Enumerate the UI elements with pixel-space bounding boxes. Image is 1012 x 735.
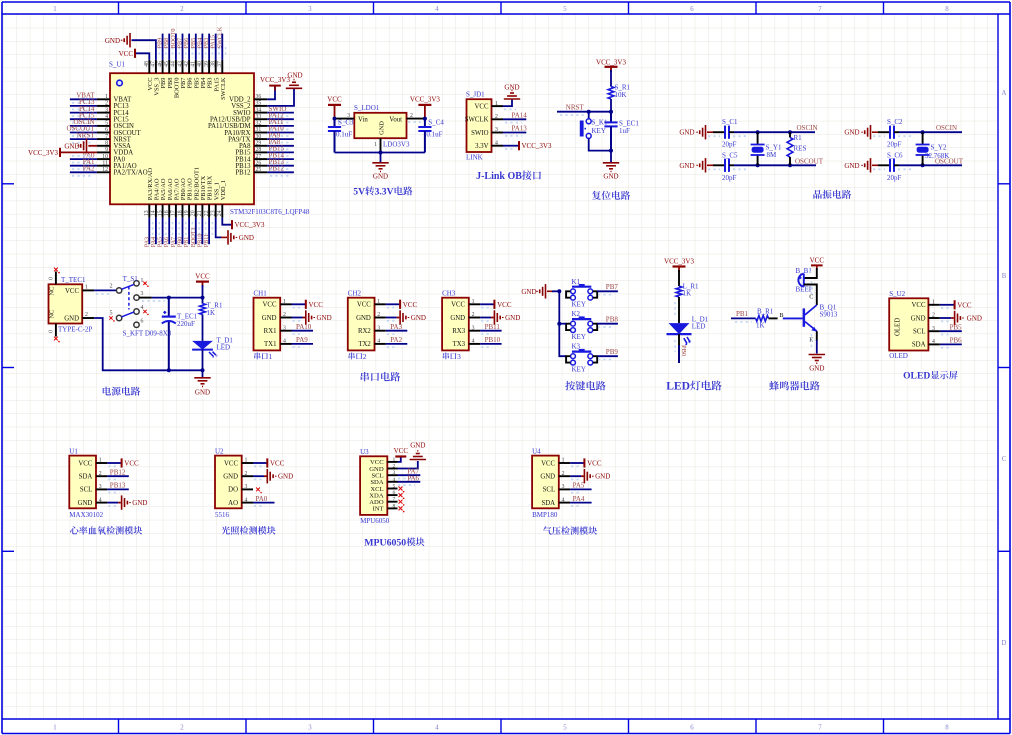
svg-text:PA0: PA0 — [256, 495, 268, 503]
junction — [167, 368, 171, 372]
crystal S_Y2 32.768K — [916, 132, 950, 165]
svg-text:3: 3 — [141, 291, 144, 297]
svg-text:TYPE-C-2P: TYPE-C-2P — [58, 326, 92, 334]
svg-text:VCC_3V3: VCC_3V3 — [410, 96, 440, 104]
svg-text:SDA: SDA — [541, 500, 555, 507]
svg-text:LED: LED — [692, 323, 706, 331]
wire net PB1 to base resistor — [731, 318, 756, 322]
wire OSCIN (crystal 2 top) — [899, 131, 962, 133]
LDO pin names — [358, 117, 402, 135]
svg-text:1: 1 — [85, 285, 88, 291]
svg-text:2: 2 — [363, 352, 367, 361]
svg-text:28: 28 — [256, 147, 262, 153]
svg-text:VCC: VCC — [912, 302, 926, 309]
wire K2 branch — [559, 323, 566, 325]
junction — [557, 289, 561, 293]
svg-text:5: 5 — [563, 724, 567, 731]
svg-text:1: 1 — [269, 352, 273, 361]
push button S_K1 KEY — [580, 112, 608, 139]
svg-text:NRST: NRST — [77, 131, 96, 139]
svg-text:PA14: PA14 — [512, 112, 528, 120]
svg-text:VCC: VCC — [810, 256, 825, 264]
svg-text:PA13: PA13 — [512, 125, 528, 133]
svg-text:GND: GND — [809, 365, 824, 373]
ground (U1) — [122, 495, 148, 509]
svg-text:46: 46 — [157, 61, 163, 67]
ground (reset) — [603, 163, 619, 181]
serial connector CH1 body — [254, 298, 281, 351]
U3 pin names and numbers — [369, 457, 395, 513]
wire net PB0 (U1 bottom) — [183, 218, 186, 245]
J-Link connector S_JD1 body — [467, 99, 492, 152]
wire net SWIO (U1) — [267, 113, 294, 117]
svg-text:S_U2: S_U2 — [889, 290, 905, 298]
svg-text:32.768K: 32.768K — [925, 152, 949, 160]
svg-text:13: 13 — [144, 210, 150, 216]
U3 pin stubs — [387, 462, 397, 509]
svg-text:15: 15 — [157, 210, 163, 216]
power VCC_3V3 (LED) — [664, 258, 694, 273]
svg-text:S_C4: S_C4 — [428, 119, 444, 127]
wire TEC1 VCC to switch — [94, 290, 116, 294]
serial connector CH3 body — [442, 298, 469, 351]
wire net OSCOUT (U1 pin 6) — [70, 133, 97, 137]
svg-text:GND: GND — [132, 499, 147, 507]
wire TEC1 GND down and along bottom — [94, 318, 202, 370]
svg-text:12: 12 — [102, 167, 108, 173]
svg-text:PA6: PA6 — [407, 474, 419, 482]
CH1 value — [254, 352, 260, 359]
wire U1 VSS_3 to GND — [132, 40, 156, 60]
svg-text:RX3: RX3 — [452, 328, 465, 335]
svg-text:NC: NC — [49, 287, 56, 296]
svg-text:20pF: 20pF — [722, 141, 737, 149]
wire net VBAT (U1 pin 1) — [70, 99, 97, 103]
svg-text:PB0: PB0 — [680, 345, 687, 356]
wire VCC to R1 — [202, 285, 204, 304]
svg-text:GND: GND — [64, 315, 79, 322]
svg-text:29: 29 — [256, 141, 262, 147]
J-Link pin names and numbers — [465, 101, 498, 150]
T_TEC1 pin names — [49, 287, 80, 323]
wire net PA13 — [503, 133, 526, 136]
svg-text:5516: 5516 — [215, 511, 230, 519]
T_TEC1 pin 2 GND stub — [82, 312, 94, 318]
svg-text:GND: GND — [411, 314, 426, 322]
svg-text:1: 1 — [53, 724, 56, 731]
wire U1 VDD_2 to VCC_3V3 — [267, 86, 275, 100]
wire net NRST — [557, 112, 611, 115]
svg-text:GND: GND — [679, 129, 694, 137]
svg-text:GND: GND — [505, 314, 520, 322]
svg-text:GND: GND — [679, 162, 694, 170]
capacitor S_C3 0.1uF — [328, 119, 354, 153]
wire net PA11 (U1) — [267, 126, 294, 129]
CH2 value — [349, 352, 355, 359]
wire net BOOT0 (U1 top) — [173, 34, 180, 60]
wire U1 VSS_1 to GND — [216, 218, 221, 238]
wire net PC13 (U1 pin 2) — [70, 106, 97, 110]
wire switch pin3 to VCC node — [139, 298, 202, 301]
power VCC (U3) — [394, 447, 409, 457]
capacitor S_C6 20pF — [873, 151, 913, 182]
svg-text:44: 44 — [171, 61, 177, 67]
wire LED to ground rail — [202, 350, 204, 371]
U3 no-connect pin 5 — [399, 487, 403, 491]
svg-text:VCC: VCC — [587, 460, 602, 468]
svg-text:5: 5 — [105, 121, 108, 127]
svg-text:T_TEC1: T_TEC1 — [61, 276, 86, 284]
svg-text:3: 3 — [308, 724, 312, 731]
wire net PB6 (U1 top) — [186, 34, 193, 60]
wire net PA4 (U1 bottom) — [156, 218, 159, 245]
power VCC_3V3 (LDO output) — [410, 96, 440, 119]
power VCC (power circuit) — [195, 272, 210, 287]
power VCC (LDO input) — [327, 96, 342, 119]
U1 pin names and numbers — [78, 458, 102, 507]
caption 5516 module — [221, 526, 230, 534]
ground (power circuit) — [194, 378, 210, 397]
wire to GND symbol — [380, 153, 382, 163]
wire net PA15 (U1 top) — [212, 34, 219, 60]
power VCC_3V3 (reset) — [596, 59, 626, 73]
svg-text:19: 19 — [184, 210, 190, 216]
svg-text:OLED: OLED — [889, 352, 908, 360]
junction — [201, 368, 205, 372]
svg-text:6: 6 — [141, 318, 144, 324]
ground (U3) — [410, 441, 426, 459]
svg-text:PB12: PB12 — [235, 170, 251, 177]
U2 pin stubs — [242, 463, 253, 503]
wire net PB7 (U1 top) — [179, 34, 186, 60]
ground (U4) — [584, 469, 610, 483]
svg-text:PB13: PB13 — [110, 482, 126, 490]
svg-text:PA9: PA9 — [296, 336, 308, 344]
wire CH3 VCC — [480, 304, 494, 307]
svg-text:42: 42 — [184, 61, 190, 67]
wire LDO GND pin 1 — [380, 138, 382, 152]
svg-text:S_C6: S_C6 — [887, 151, 903, 159]
svg-text:20pF: 20pF — [887, 141, 902, 149]
module U2 body — [215, 456, 242, 509]
svg-text:25: 25 — [256, 167, 262, 173]
wire net PB13 (U1) — [107, 489, 129, 492]
svg-text:CH1: CH1 — [254, 289, 268, 297]
svg-text:Vin: Vin — [358, 117, 368, 124]
svg-text:8: 8 — [105, 141, 108, 147]
svg-text:VCC: VCC — [78, 460, 92, 467]
wire net OSCIN (U1 pin 5) — [70, 126, 97, 129]
U1 pin stubs — [96, 463, 107, 503]
svg-text:S_C3: S_C3 — [338, 119, 354, 127]
wire VCC to buzzer pin 1 — [804, 268, 817, 278]
wire net PB9 (U1 top) — [159, 34, 166, 60]
svg-text:7: 7 — [818, 724, 822, 731]
svg-text:47: 47 — [151, 61, 157, 67]
svg-text:GND: GND — [504, 84, 519, 92]
svg-text:5V: 5V — [353, 187, 365, 198]
wire net PB11 (CH3) — [480, 331, 502, 334]
svg-text:38: 38 — [211, 61, 217, 67]
svg-text:17: 17 — [171, 210, 177, 216]
svg-text:PB12: PB12 — [110, 468, 126, 476]
wire net BOOT1 (U1 bottom) — [196, 218, 199, 245]
svg-text:OLED: OLED — [903, 371, 930, 382]
svg-text:40: 40 — [197, 61, 203, 67]
svg-text:T_S1: T_S1 — [123, 275, 139, 283]
module U4 body — [532, 456, 559, 509]
svg-text:PA2/TX/AO: PA2/TX/AO — [114, 170, 148, 177]
module U3 MPU6050 body — [360, 456, 387, 515]
junction — [379, 151, 383, 155]
MCU left pin stubs, numbers and names — [97, 94, 148, 177]
svg-text:C: C — [1002, 456, 1007, 463]
capacitor S_C4 0.1uF — [418, 119, 444, 153]
wire button common — [552, 290, 559, 292]
wire U3 GND — [398, 461, 418, 469]
svg-text:VCC: VCC — [124, 460, 139, 468]
svg-text:PB7: PB7 — [606, 283, 619, 291]
power VCC_3V3 (J-Link pin 4) — [519, 141, 552, 150]
svg-text:PB11: PB11 — [485, 323, 501, 331]
svg-text:U1: U1 — [69, 447, 78, 455]
svg-text:1K: 1K — [683, 289, 692, 297]
svg-text:PB8: PB8 — [606, 315, 619, 323]
wire S_U2 GND — [940, 318, 954, 321]
svg-text:VCC_3V3: VCC_3V3 — [522, 142, 552, 150]
svg-text:0: 0 — [49, 277, 55, 280]
svg-text:S_K1: S_K1 — [592, 119, 608, 127]
T_TEC1 NC pin top — [49, 268, 60, 285]
svg-text:STM32F103C8T6_LQFP48: STM32F103C8T6_LQFP48 — [230, 208, 310, 216]
svg-text:PB9: PB9 — [606, 348, 619, 356]
svg-text:VCC: VCC — [224, 460, 238, 467]
wire net PB15 (U1) — [267, 152, 294, 156]
svg-text:AO: AO — [228, 500, 238, 507]
OLED S_U2 body — [889, 298, 928, 350]
wire net PA5 (U4) — [570, 489, 592, 492]
svg-text:KEY: KEY — [572, 301, 586, 309]
svg-text:VCC: VCC — [403, 301, 418, 309]
svg-text:KEY: KEY — [572, 366, 586, 374]
svg-text:GND: GND — [521, 288, 536, 296]
wire net PA2 (U1 pin 12) — [70, 172, 97, 176]
ground (LDO) — [372, 163, 388, 181]
wire net PB10 (CH3) — [480, 344, 502, 347]
svg-text:GND: GND — [379, 121, 386, 135]
wire net PB12 (U1) — [107, 476, 129, 479]
caption serial circuit — [361, 372, 369, 381]
push button K3 KEY — [566, 343, 597, 374]
svg-text:TX1: TX1 — [264, 341, 276, 348]
wire button common vertical — [559, 291, 566, 356]
svg-text:3.3V: 3.3V — [375, 187, 394, 198]
wire net PB11 (U1 bottom) — [209, 218, 212, 245]
svg-text:41: 41 — [191, 61, 197, 67]
svg-text:NC: NC — [49, 310, 56, 319]
ground at U1 pin 8 (VSSA) — [64, 139, 97, 153]
wire net PA4 (U4) — [570, 503, 592, 506]
LDO pin numbers — [347, 113, 413, 148]
svg-text:2: 2 — [180, 724, 184, 731]
svg-text:23: 23 — [211, 210, 217, 216]
svg-text:VCC: VCC — [451, 302, 465, 309]
power VCC (buzzer) — [810, 256, 825, 270]
svg-text:RX2: RX2 — [358, 328, 371, 335]
svg-text:GND: GND — [603, 173, 618, 181]
svg-text:VCC: VCC — [65, 288, 79, 295]
wire U1 GND — [107, 503, 121, 506]
wire CH1 VCC — [292, 304, 306, 307]
svg-text:S_C1: S_C1 — [722, 118, 738, 126]
svg-text:S_LDO1: S_LDO1 — [354, 104, 380, 112]
U2 no-connect pin — [256, 488, 262, 494]
svg-text:6: 6 — [690, 724, 694, 731]
svg-text:S_C5: S_C5 — [722, 151, 738, 159]
svg-text:20: 20 — [191, 210, 197, 216]
wire net PB14 (U1) — [267, 159, 294, 163]
resistor L_R1 1K — [676, 283, 699, 298]
capacitor T_EC1 220uF — [162, 298, 198, 371]
svg-text:PB1: PB1 — [736, 310, 749, 318]
svg-text:0.1uF: 0.1uF — [426, 131, 442, 139]
svg-text:10K: 10K — [615, 91, 627, 99]
junction — [201, 296, 205, 300]
power VCC (CH3) — [494, 300, 511, 309]
svg-text:SCL: SCL — [80, 487, 92, 494]
svg-text:30: 30 — [256, 134, 262, 140]
wire net PA6 (U1 bottom) — [169, 218, 172, 245]
svg-text:TX2: TX2 — [358, 341, 371, 348]
svg-text:GND: GND — [844, 129, 859, 137]
U2 pin names and numbers — [223, 458, 247, 507]
push button K1 KEY — [566, 278, 597, 309]
svg-text:Vout: Vout — [389, 117, 402, 124]
S_U2 pin names and numbers — [895, 300, 936, 349]
ground (CH3) — [494, 310, 520, 324]
wire CH2 GND — [386, 318, 400, 321]
ground at U1 pin 23 — [221, 230, 254, 244]
wire net PA3 (CH2) — [386, 331, 408, 334]
module U1 body — [69, 456, 96, 509]
svg-text:GND: GND — [105, 37, 120, 45]
wire net PA7 (U3 SCL) — [398, 475, 421, 478]
wire OSCOUT (crystal 2 bottom) — [899, 164, 962, 166]
wire to GND (reset) — [610, 151, 612, 163]
svg-text:VCC: VCC — [497, 301, 512, 309]
svg-text:PA10: PA10 — [296, 323, 312, 331]
caption reset circuit — [592, 191, 601, 200]
svg-text:GND: GND — [595, 473, 610, 481]
resistor S_R1 10K — [608, 84, 630, 100]
svg-text:PB12: PB12 — [269, 165, 285, 173]
wire buzzer pin 2 to collector — [804, 285, 817, 306]
junction — [423, 117, 427, 121]
power VCC (U4) — [584, 458, 601, 467]
junction — [609, 110, 613, 114]
svg-text:SCL: SCL — [543, 487, 555, 494]
svg-text:GND: GND — [967, 315, 982, 323]
wire net PB10 (U1 bottom) — [202, 218, 205, 245]
junction — [921, 130, 925, 134]
svg-text:220uF: 220uF — [177, 320, 195, 328]
ground (CH2) — [400, 310, 426, 324]
svg-text:1: 1 — [105, 94, 108, 100]
svg-text:VCC_3V3: VCC_3V3 — [596, 59, 626, 67]
svg-text:VCC_3V3: VCC_3V3 — [28, 149, 58, 157]
svg-text:K2: K2 — [572, 310, 581, 318]
svg-text:S_KFT D09-8X8: S_KFT D09-8X8 — [123, 330, 172, 338]
wire net PA12 (U1) — [267, 119, 294, 123]
svg-text:35: 35 — [256, 101, 262, 107]
ground (S_C5 left) — [679, 158, 713, 172]
svg-text:OSCOUT: OSCOUT — [795, 157, 824, 165]
ground (S_C2 left) — [844, 125, 878, 139]
svg-text:J-Link OB: J-Link OB — [476, 171, 522, 182]
wire net PB4 (U1 top) — [199, 34, 206, 60]
svg-text:33: 33 — [256, 114, 262, 120]
CH2 pin stubs — [375, 304, 386, 344]
svg-text:S_C2: S_C2 — [887, 118, 903, 126]
wire CH1 GND — [292, 318, 306, 321]
junction — [921, 163, 925, 167]
wire U4 GND — [570, 476, 584, 479]
wire VCC_3V3 to R1 — [610, 70, 612, 87]
svg-text:B_B1: B_B1 — [796, 267, 813, 275]
svg-text:27: 27 — [256, 154, 262, 160]
J-Link pin stubs — [492, 106, 504, 146]
power VCC (CH2) — [400, 300, 417, 309]
CH1 pin names and numbers — [262, 299, 286, 348]
ground (S_C1 left) — [679, 125, 713, 139]
wire net PB12 (U1) — [267, 172, 294, 176]
svg-text:GND: GND — [64, 142, 79, 150]
caption buzzer circuit — [769, 381, 779, 391]
power VCC (U2) — [267, 458, 284, 467]
svg-text:7: 7 — [105, 134, 108, 140]
ground (buzzer) — [809, 355, 825, 373]
svg-text:1: 1 — [374, 142, 377, 148]
svg-text:VCC: VCC — [357, 302, 371, 309]
LDO U=S_LDO1 body — [354, 113, 406, 138]
power VCC (CH1) — [306, 300, 323, 309]
wire base — [769, 317, 778, 319]
power VCC_3V3 at U1 pin 24 — [232, 220, 265, 229]
svg-text:PA2: PA2 — [83, 165, 95, 173]
svg-text:16: 16 — [164, 210, 170, 216]
wire net PB5 (OLED SCL) — [940, 331, 962, 334]
junction — [609, 149, 613, 153]
LED T_D1 — [192, 337, 233, 358]
wire button to ground rail — [589, 139, 611, 151]
wire net PA7 (U1 bottom) — [176, 218, 179, 245]
wire net PB8 — [597, 324, 618, 327]
svg-text:11: 11 — [102, 160, 108, 166]
svg-text:21: 21 — [197, 210, 203, 216]
svg-text:KEY: KEY — [572, 333, 586, 341]
svg-text:8M: 8M — [767, 151, 778, 159]
svg-text:S_U1: S_U1 — [109, 61, 125, 69]
U3 no-connect pin 6 — [399, 493, 403, 497]
caption power circuit — [103, 387, 111, 396]
svg-text:48: 48 — [144, 61, 150, 67]
wire OSCOUT (crystal 1 bottom) — [734, 164, 816, 166]
wire emitter to GND — [816, 331, 818, 341]
T_TEC1 NC pin bottom — [49, 324, 60, 343]
svg-text:KEY: KEY — [592, 127, 606, 135]
ground at U1 pin 47 — [105, 33, 130, 47]
wire net PB13 (U1) — [267, 166, 294, 170]
